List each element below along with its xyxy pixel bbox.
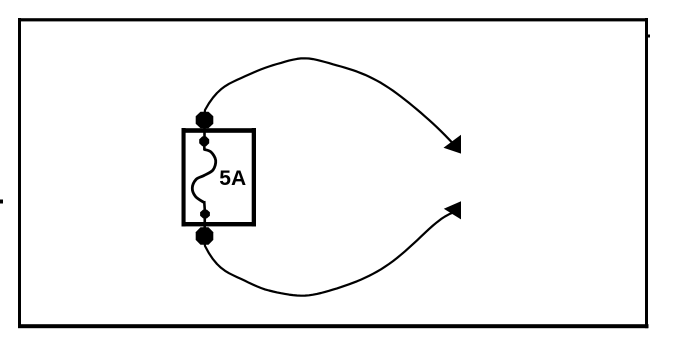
svg-text:5A: 5A (219, 167, 246, 190)
